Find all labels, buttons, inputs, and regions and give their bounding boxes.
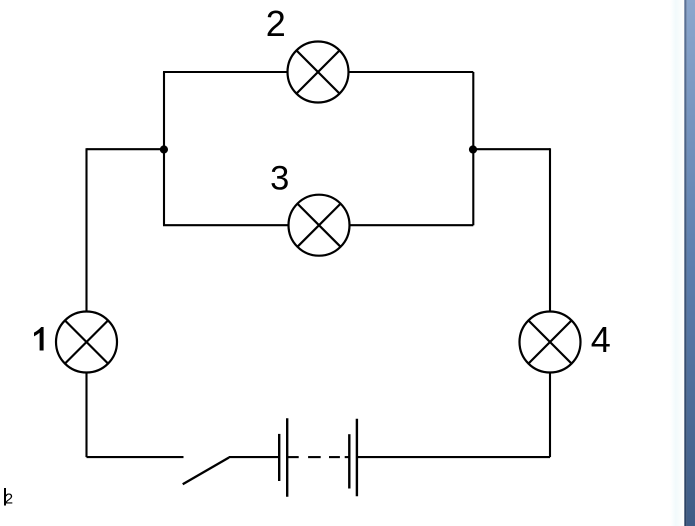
wire left vertical above lamp 1 — [85, 148, 87, 311]
node B junction dot — [469, 145, 477, 153]
wire bottom right horizontal from battery — [357, 456, 550, 458]
wire bottom left horizontal to switch — [87, 456, 184, 458]
battery B1 cell 2 long plate — [356, 419, 358, 497]
wire stub left of cell 2 — [345, 456, 350, 458]
wire top branch left vertical — [163, 72, 165, 149]
lamp L2 — [288, 42, 349, 103]
battery B1 cell 1 long plate — [286, 418, 288, 496]
decorative stripe dark edge — [684, 0, 686, 526]
svg-text:4: 4 — [591, 319, 611, 360]
wire dash 1 between cells — [308, 456, 321, 458]
wire middle branch right vertical — [472, 149, 474, 225]
lamp L3 — [289, 195, 350, 256]
node A junction dot — [160, 145, 168, 153]
wire left lead from lamp1 branch to node A — [87, 148, 165, 150]
battery B1 cell 2 short plate — [348, 434, 350, 488]
lamp L4 — [520, 312, 581, 373]
wire right vertical above lamp 4 — [549, 148, 551, 311]
wire right lead from node B — [473, 148, 550, 150]
battery B1 cell 1 short plate — [278, 434, 280, 481]
svg-text:3: 3 — [270, 159, 289, 197]
wire dash 2 between cells — [329, 456, 340, 458]
decorative blue stripe — [687, 0, 695, 526]
slide number cursor bar — [4, 488, 6, 506]
wire middle branch horizontal right of lamp 3 — [350, 224, 474, 226]
wire left vertical below lamp 1 — [85, 373, 87, 458]
wire middle branch left vertical — [163, 149, 165, 225]
label 1 — [34, 327, 44, 351]
svg-text:2: 2 — [5, 490, 13, 507]
wire top branch horizontal right of lamp 2 — [349, 71, 474, 73]
switch S1 open blade — [183, 458, 229, 485]
wire stub right of cell 1 — [287, 456, 299, 458]
wire top branch horizontal left of lamp 2 — [163, 71, 288, 73]
wire right vertical below lamp 4 — [549, 373, 551, 458]
wire top branch right vertical — [472, 72, 474, 149]
lamp L1 — [56, 312, 117, 373]
wire from switch to battery — [229, 456, 280, 458]
wire middle branch horizontal left of lamp 3 — [163, 224, 289, 226]
decorative right margin fade — [670, 0, 684, 526]
svg-text:2: 2 — [266, 3, 286, 44]
